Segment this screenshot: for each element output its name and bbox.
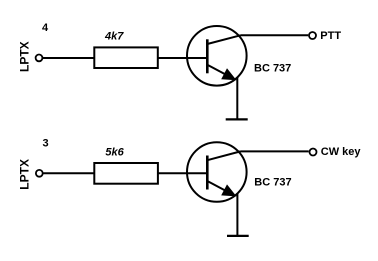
transistor Q2 base bar [206,156,209,190]
wire emitter to ground [236,77,238,119]
wire R1 to base of Q1 [158,57,207,59]
terminal J2 (bottom LPTX input terminal) [36,170,43,177]
transistor Q1 base bar [206,39,209,73]
svg-text:4: 4 [42,22,49,34]
resistor R2 [94,163,158,184]
wire terminal to R1 [43,57,95,59]
svg-text:4k7: 4k7 [104,30,124,42]
wire terminal to R2 [43,172,94,174]
terminal PTT output [309,32,316,39]
transistor Q1 emitter stroke [207,65,232,78]
svg-text:3: 3 [43,138,49,150]
svg-text:LPTX: LPTX [18,41,32,72]
transistor Q2 collector stroke [207,151,240,160]
svg-text:CW key: CW key [321,146,362,158]
transistor Q1 body circle [187,26,247,86]
svg-text:5k6: 5k6 [105,146,124,158]
svg-text:PTT: PTT [320,30,341,42]
svg-text:BC 737: BC 737 [254,62,291,74]
ground (bottom circuit) [227,235,249,237]
resistor R1 [94,47,158,68]
transistor Q1 emitter arrowhead [221,68,236,80]
svg-text:LPTX: LPTX [18,159,32,190]
wire collector to PTT terminal [241,34,309,36]
terminal J1 (top LPTX input terminal) [36,55,43,62]
wire R2 to base of Q2 [158,172,207,174]
transistor Q1 collector stroke [207,35,240,44]
svg-text:BC 737: BC 737 [254,177,291,189]
ground (top circuit) [226,118,248,120]
wire collector to CW key terminal [241,150,309,152]
transistor Q2 emitter stroke [207,181,232,194]
terminal CW key output [310,149,317,156]
transistor Q2 body circle [187,142,247,202]
transistor Q2 emitter arrowhead [221,184,236,196]
wire emitter to ground [236,193,238,236]
